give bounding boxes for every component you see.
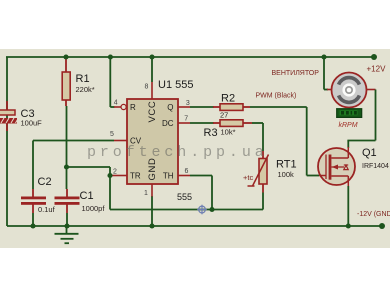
svg-text:10k*: 10k* [221,128,236,137]
svg-text:+12V: +12V [367,65,387,74]
capacitor C1 [55,189,106,213]
svg-text:TH: TH [163,172,174,181]
svg-text:555: 555 [177,192,192,202]
node label -12V (GND) [357,211,390,218]
wire pin4 branch [110,57,114,107]
resistor R2 [213,93,250,120]
kRPM tachometer display [337,109,362,129]
svg-text:100k: 100k [278,170,295,179]
op-amp U1 555 timer body [127,79,193,202]
resistor R3 [204,120,253,139]
svg-text:VCC: VCC [147,101,158,123]
node label PWM (Black) [256,93,297,100]
wire bottom ground bus [7,225,382,227]
ground [55,226,79,243]
svg-text:4: 4 [114,99,118,106]
pin 7 DC [162,116,190,129]
wire GND pin to bus [151,196,153,226]
thermistor RT1 [243,151,297,193]
wire motor right to drain [347,90,375,149]
wire DC output to R3 [190,122,214,124]
node origin marker [197,205,207,215]
svg-text:PWM (Black): PWM (Black) [256,93,297,100]
svg-text:GND: GND [147,158,158,181]
wire top +12V bus [6,56,374,58]
pin 2 TR [112,169,141,181]
watermark [87,144,268,161]
resistor R1 [62,57,95,106]
svg-text:R: R [130,103,136,112]
svg-text:C2: C2 [38,176,52,188]
wire left vertical rail [6,57,8,226]
svg-text:3: 3 [186,100,190,107]
pin 1 GND [144,158,158,197]
capacitor C2 [21,176,56,214]
svg-text:proftech.pp.ua: proftech.pp.ua [87,144,268,161]
wire Q output to R2 [190,106,214,108]
svg-text:6: 6 [185,168,189,175]
pin 5 CV [110,131,142,146]
wire CV net down to C2 [32,141,34,190]
schematic sheet background [0,49,390,248]
transistor Q1 IRF1404 [318,147,389,186]
svg-text:ВЕНТИЛЯТОР: ВЕНТИЛЯТОР [272,70,320,77]
svg-text:U1 555: U1 555 [158,79,193,91]
svg-text:R2: R2 [221,93,235,105]
wire C2 to ground bus [32,213,34,226]
pin 6 TH [163,168,190,181]
wire RT1 bottom [262,193,264,210]
wire fan branch from bus [324,57,328,90]
svg-text:Q: Q [167,103,173,112]
svg-text:C1: C1 [80,190,94,202]
motor fan ВЕНТИЛЯТОР [272,70,376,108]
svg-text:RT1: RT1 [276,159,297,171]
wire VCC branch [151,57,153,82]
wire TR TH long bottom run [110,209,263,211]
pin 3 Q [167,100,190,112]
svg-text:1: 1 [144,190,148,197]
svg-text:7: 7 [184,116,188,123]
svg-text:8: 8 [145,84,149,91]
wire R2 to gate corner [250,107,319,176]
svg-text:kRPM: kRPM [339,122,358,129]
capacitor C3 [0,101,42,131]
wire CV net horizontal [33,140,114,142]
svg-text:100uF: 100uF [21,119,43,128]
svg-text:5: 5 [110,131,114,138]
svg-text:-12V (GND): -12V (GND) [357,211,390,218]
svg-text:R1: R1 [76,73,90,85]
svg-text:1000pf: 1000pf [82,204,106,213]
wire R3 to RT1 [252,123,263,151]
svg-text:220k*: 220k* [76,85,95,94]
svg-text:R3: R3 [204,127,218,139]
node label +12V [367,65,387,74]
svg-text:Q1: Q1 [362,147,377,159]
node junction dots middle [64,164,215,212]
svg-text:IRF1404: IRF1404 [362,163,389,170]
wire TH branch [190,176,212,210]
wire source to bus [347,186,349,226]
wire C1 to ground bus [66,213,68,226]
svg-text:+tc: +tc [243,173,253,182]
pin 4 R with bubble [114,99,136,112]
svg-text:DC: DC [162,119,174,128]
svg-text:TR: TR [130,172,141,181]
node junction dots bottom bus [30,223,385,229]
pin 8 VCC [145,82,159,123]
node junction dots top bus [63,54,377,60]
wire TR node from C1 [67,167,111,210]
svg-text:27: 27 [220,111,228,120]
svg-text:2: 2 [113,169,117,176]
wire R1 bottom to C1 node [66,106,68,189]
svg-text:0.1uf: 0.1uf [38,205,56,214]
